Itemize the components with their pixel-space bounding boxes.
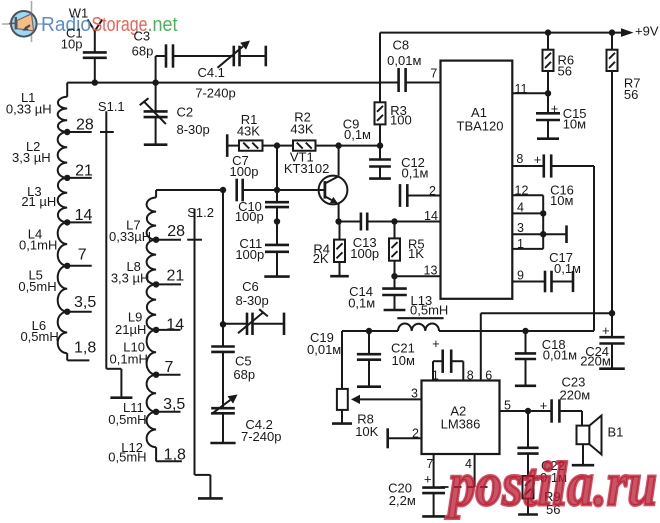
svg-text:5: 5 — [504, 399, 511, 413]
svg-text:7-240p: 7-240p — [195, 85, 235, 100]
svg-text:8: 8 — [516, 152, 523, 166]
svg-text:0,5mH: 0,5mH — [108, 412, 146, 427]
svg-text:6: 6 — [485, 369, 492, 383]
svg-text:21 µH: 21 µH — [21, 194, 56, 209]
svg-text:0,5mH: 0,5mH — [108, 450, 146, 465]
svg-text:10p: 10p — [61, 37, 83, 52]
svg-text:28: 28 — [76, 117, 94, 134]
svg-text:1,8: 1,8 — [74, 340, 96, 357]
svg-text:100p: 100p — [230, 164, 259, 179]
svg-text:43K: 43K — [237, 123, 260, 138]
svg-text:1K: 1K — [408, 246, 424, 261]
svg-text:10K: 10K — [355, 424, 378, 439]
svg-text:0,1м: 0,1м — [344, 127, 371, 142]
svg-text:7: 7 — [164, 359, 173, 376]
svg-text:7: 7 — [426, 457, 433, 471]
svg-text:C3: C3 — [133, 28, 150, 43]
svg-text:C8: C8 — [392, 37, 409, 52]
svg-text:3: 3 — [517, 221, 524, 235]
svg-text:68p: 68p — [233, 367, 255, 382]
svg-text:0,33 µH: 0,33 µH — [6, 101, 52, 116]
svg-text:56: 56 — [624, 87, 638, 102]
svg-text:0,1mH: 0,1mH — [19, 238, 57, 253]
svg-text:C4.1: C4.1 — [197, 65, 224, 80]
svg-text:3,5: 3,5 — [74, 294, 96, 311]
svg-text:10м: 10м — [392, 353, 415, 368]
svg-text:LM386: LM386 — [441, 416, 481, 431]
svg-text:0,5mH: 0,5mH — [20, 329, 58, 344]
svg-text:100p: 100p — [350, 246, 379, 261]
svg-text:21µH: 21µH — [115, 322, 146, 337]
svg-text:100p: 100p — [235, 209, 264, 224]
svg-text:KT3102: KT3102 — [284, 161, 330, 176]
svg-text:12: 12 — [515, 183, 529, 197]
svg-text:9: 9 — [517, 268, 524, 282]
svg-text:11: 11 — [515, 82, 528, 96]
svg-text:0,5mH: 0,5mH — [18, 279, 56, 294]
svg-text:+: + — [602, 323, 610, 338]
svg-text:14: 14 — [75, 207, 93, 224]
svg-text:10м: 10м — [563, 117, 586, 132]
svg-text:2: 2 — [429, 184, 436, 198]
svg-text:+9V: +9V — [635, 24, 659, 39]
svg-text:S1.1: S1.1 — [98, 99, 125, 114]
svg-text:1,8: 1,8 — [164, 447, 186, 464]
svg-text:2K: 2K — [313, 251, 329, 266]
svg-text:0,1м: 0,1м — [401, 166, 428, 181]
svg-text:2,2м: 2,2м — [389, 493, 416, 508]
svg-text:100p: 100p — [235, 247, 264, 262]
svg-text:0,01м: 0,01м — [387, 53, 421, 68]
svg-text:3: 3 — [411, 387, 418, 401]
svg-text:220м: 220м — [560, 388, 591, 403]
svg-text:7: 7 — [430, 66, 437, 80]
svg-text:0,1м: 0,1м — [554, 261, 581, 276]
svg-text:68p: 68p — [132, 43, 154, 58]
svg-text:4: 4 — [517, 200, 524, 214]
svg-text:+: + — [551, 101, 559, 116]
svg-text:2: 2 — [412, 427, 419, 441]
svg-text:S1.2: S1.2 — [187, 205, 214, 220]
svg-text:1: 1 — [432, 369, 439, 383]
svg-text:+: + — [534, 152, 542, 167]
svg-text:21: 21 — [75, 163, 93, 180]
svg-text:10м: 10м — [550, 193, 573, 208]
svg-text:14: 14 — [424, 209, 438, 223]
svg-text:13: 13 — [424, 263, 438, 277]
svg-text:8-30p: 8-30p — [177, 122, 210, 137]
svg-text:C6: C6 — [242, 279, 259, 294]
svg-text:+: + — [540, 398, 548, 413]
svg-text:220м: 220м — [580, 353, 611, 368]
svg-text:3,5: 3,5 — [163, 396, 185, 413]
svg-text:+: + — [432, 336, 440, 351]
svg-text:28: 28 — [167, 223, 185, 240]
svg-text:8: 8 — [467, 369, 474, 383]
svg-text:21: 21 — [167, 267, 185, 284]
svg-text:C2: C2 — [177, 105, 194, 120]
svg-text:43K: 43K — [290, 122, 313, 137]
svg-text:100: 100 — [390, 113, 412, 128]
svg-text:0,01м: 0,01м — [543, 347, 577, 362]
svg-text:14: 14 — [166, 317, 184, 334]
svg-text:B1: B1 — [608, 424, 624, 439]
svg-text:W1: W1 — [69, 6, 89, 21]
svg-text:7: 7 — [78, 247, 87, 264]
svg-text:0,33µH: 0,33µH — [109, 229, 151, 244]
svg-text:0,1mH: 0,1mH — [110, 352, 148, 367]
svg-text:+: + — [424, 472, 432, 487]
svg-text:7-240p: 7-240p — [241, 429, 281, 444]
svg-text:3,3 µH: 3,3 µH — [12, 150, 51, 165]
svg-text:0,5mH: 0,5mH — [410, 302, 448, 317]
svg-text:0,01м: 0,01м — [307, 342, 341, 357]
svg-text:0,1м: 0,1м — [348, 296, 375, 311]
svg-text:TBA120: TBA120 — [457, 118, 504, 133]
svg-text:8-30p: 8-30p — [235, 293, 268, 308]
svg-text:3,3 µH: 3,3 µH — [111, 271, 150, 286]
svg-text:56: 56 — [558, 63, 572, 78]
svg-text:.net: .net — [148, 14, 178, 36]
svg-text:postila.ru: postila.ru — [445, 451, 657, 519]
svg-text:1: 1 — [517, 237, 524, 251]
